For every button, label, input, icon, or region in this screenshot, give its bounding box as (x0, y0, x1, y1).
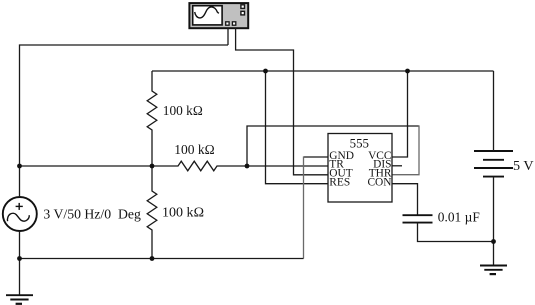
svg-text:100 kΩ: 100 kΩ (162, 206, 204, 221)
node dot R3 ground (150, 256, 155, 261)
wire CON to capacitor (392, 184, 418, 215)
wire THR loop to pin (392, 125, 419, 174)
node dot source ground (17, 256, 22, 261)
wire battery bottom to ground (493, 177, 495, 266)
wire ground bus bottom (20, 258, 304, 260)
wire RES to VCC rail (266, 71, 329, 184)
wire VCC rail (152, 70, 494, 72)
node dot TR/THR junction (245, 164, 250, 169)
node dot input/source (17, 164, 22, 169)
resistor 100k upper (zigzag vertical) (147, 71, 157, 166)
svg-text:0.01 µF: 0.01 µF (438, 210, 480, 225)
resistor 100k lower (zigzag vertical) (147, 166, 157, 259)
wire scope channel A drop (227, 28, 229, 45)
wire input node horizontal (20, 165, 153, 167)
node dot RES on VCC rail (263, 69, 268, 74)
IC 555 timer (328, 134, 392, 203)
node dot VCC pin on rail (405, 69, 410, 74)
wire VCC pin drop (392, 71, 408, 157)
svg-text:5 V: 5 V (513, 159, 534, 174)
svg-text:RES: RES (329, 176, 350, 188)
ground symbol left (6, 295, 33, 304)
node dot battery-capacitor ground (491, 239, 496, 244)
oscilloscope XSC1 (189, 3, 248, 28)
wire DIS stub (392, 165, 402, 167)
svg-text:100 kΩ: 100 kΩ (174, 143, 215, 158)
svg-text:555: 555 (350, 137, 369, 151)
wire battery top (493, 71, 495, 151)
node dot R1-R2-R3 junction (150, 164, 155, 169)
ground symbol right (480, 266, 507, 275)
svg-text:3 V/50 Hz/0 Deg: 3 V/50 Hz/0 Deg (43, 208, 140, 223)
wire GND pin lead (304, 156, 329, 158)
wire capacitor to ground node (418, 223, 494, 242)
wire top horizontal to source branch (20, 45, 229, 196)
wire THR loop upper (247, 126, 419, 166)
battery 5V (474, 151, 513, 177)
wire scope channel B to OUT pin (236, 28, 328, 175)
resistor 100k middle (zigzag horizontal) (152, 161, 247, 171)
svg-text:CON: CON (367, 176, 391, 188)
wire TR pin (247, 165, 328, 167)
AC source V1 (3, 197, 37, 231)
capacitor 0.01uF (403, 215, 433, 222)
wire source bottom to ground (19, 231, 21, 295)
svg-text:100 kΩ: 100 kΩ (163, 104, 203, 119)
wire GND riser to ground bus (303, 156, 305, 258)
